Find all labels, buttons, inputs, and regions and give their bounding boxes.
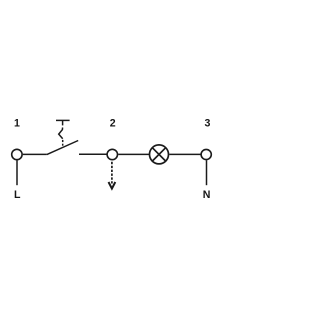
dashed actuator link to lever [62,140,64,146]
terminal 2 [107,149,117,159]
dashed arrow (actuation direction) below terminal 2 [109,162,116,189]
switch S1 lever [47,141,78,155]
terminal 2 label [110,118,116,130]
wire lamp to terminal 3 [169,153,201,155]
svg-text:N: N [203,189,211,201]
wire terminal1 to switch pivot [23,153,47,155]
terminal 3 label [205,118,211,130]
node L label [14,189,21,201]
terminal 1 label [14,118,20,130]
terminal 3 [201,149,211,159]
svg-text:2: 2 [110,118,116,130]
svg-text:L: L [14,189,21,201]
svg-text:1: 1 [14,118,20,130]
svg-text:3: 3 [205,118,211,130]
wire terminal 1 down to L [16,160,18,185]
lamp E1 [150,145,169,164]
spring-return zigzag on actuator link [59,128,63,139]
push-button actuator T-bar [56,120,70,125]
terminal 1 [12,149,22,159]
wire switch contact to terminal 2 [79,153,107,155]
wire terminal 3 down to N [206,160,208,185]
node N label [203,189,211,201]
wire terminal 2 to lamp [118,153,149,155]
